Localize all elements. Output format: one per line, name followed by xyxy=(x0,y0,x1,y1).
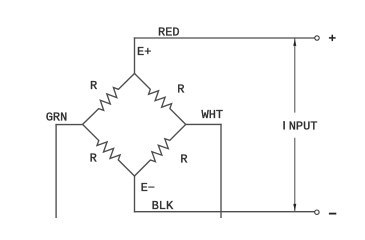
svg-text:R: R xyxy=(177,83,184,97)
wire E- vertical xyxy=(134,176,136,212)
svg-text:GRN: GRN xyxy=(46,111,68,125)
node + terminal circle xyxy=(315,36,319,40)
svg-text:R: R xyxy=(90,79,97,93)
wire RED top xyxy=(135,37,315,39)
svg-text:R: R xyxy=(180,152,187,166)
resistor R bottom-right xyxy=(135,124,186,176)
wire E+ corner vertical xyxy=(134,38,136,74)
arrowhead down at - wire xyxy=(293,204,296,211)
resistor R top-right xyxy=(135,74,186,125)
svg-text:NPUT: NPUT xyxy=(289,119,318,133)
wire GRN vertical xyxy=(55,125,57,218)
wire WHT horizontal xyxy=(186,123,221,125)
arrowhead up at + wire xyxy=(293,39,296,46)
plus sign xyxy=(329,35,336,41)
svg-text:E+: E+ xyxy=(137,45,151,59)
wire WHT vertical xyxy=(220,124,222,218)
svg-text:E−: E− xyxy=(141,181,155,195)
node - terminal circle xyxy=(315,210,319,214)
wire GRN horizontal xyxy=(56,124,83,126)
resistor R top-left xyxy=(83,74,135,125)
wire INPUT arrow lower segment xyxy=(294,138,296,211)
resistor R bottom-left xyxy=(83,124,135,176)
minus sign xyxy=(329,213,336,215)
svg-text:WHT: WHT xyxy=(202,108,224,122)
svg-text:RED: RED xyxy=(158,26,180,40)
svg-text:BLK: BLK xyxy=(152,199,174,213)
wire BLK bottom xyxy=(135,211,315,213)
wire INPUT arrow upper segment xyxy=(294,39,296,113)
svg-text:R: R xyxy=(90,152,97,166)
